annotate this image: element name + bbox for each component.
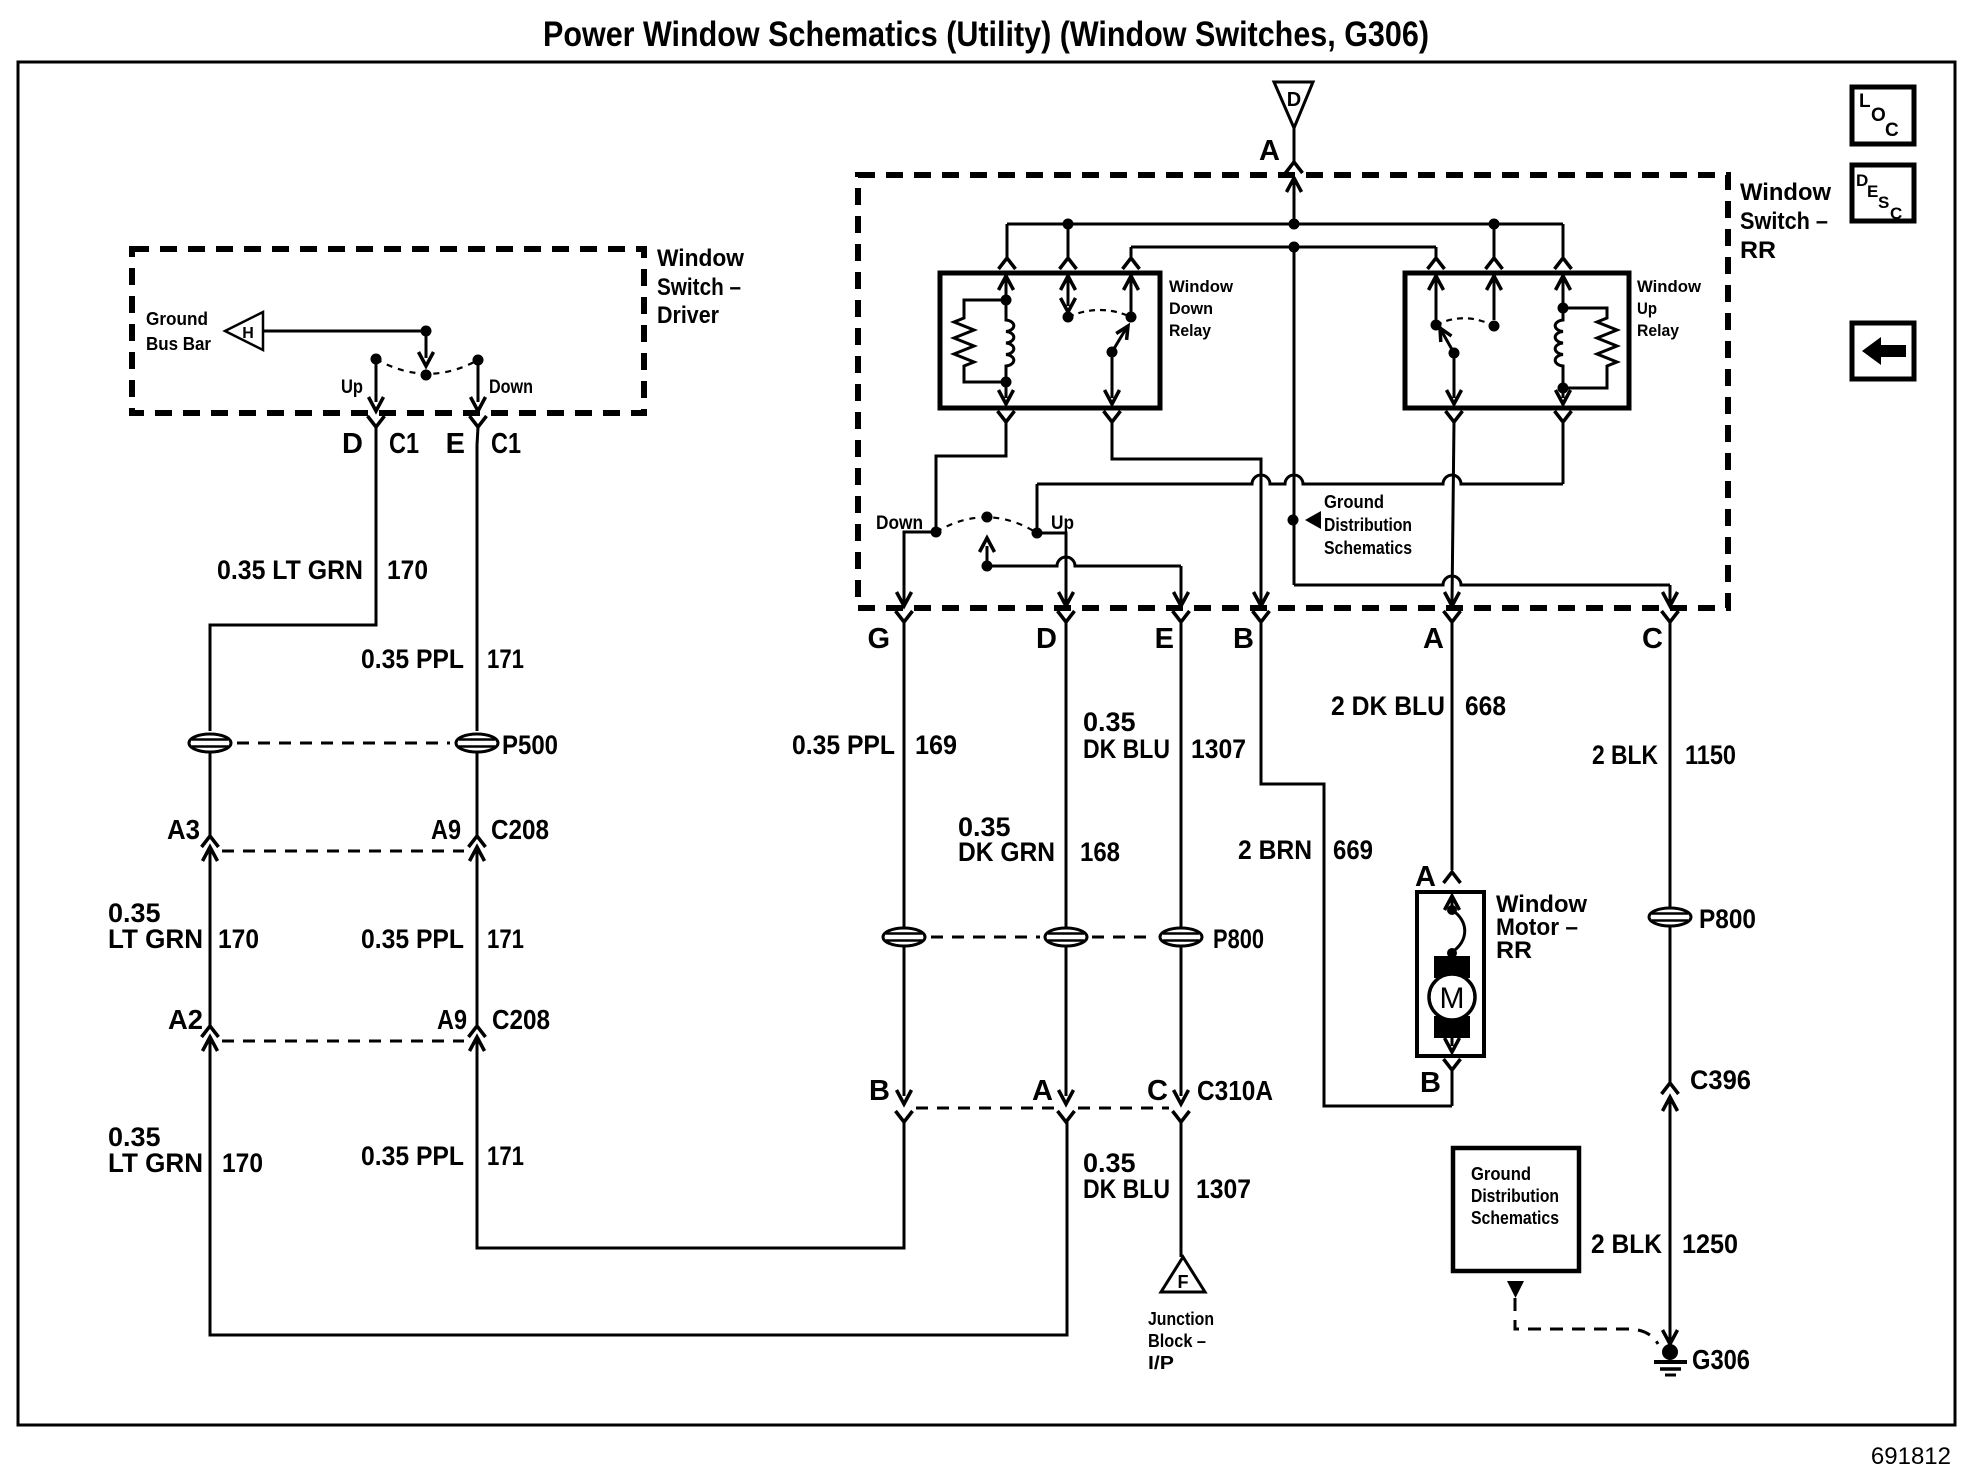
connector P800 bullet on DK GRN wire: [1045, 928, 1087, 946]
motor brush curve: [1447, 905, 1465, 958]
svg-text:0.35 PPL: 0.35 PPL: [361, 924, 464, 954]
down-relay dashed arc: [1068, 310, 1131, 317]
svg-text:B: B: [869, 1075, 890, 1107]
wire: ground tap to RR pin C (hump over A leg): [1294, 576, 1670, 602]
svg-text:0.35 LT GRN: 0.35 LT GRN: [217, 555, 363, 585]
svg-text:Distribution: Distribution: [1471, 1186, 1559, 1206]
svg-text:Window: Window: [1637, 277, 1702, 296]
svg-text:A: A: [1259, 135, 1280, 167]
Window Up Relay box: [1405, 273, 1629, 408]
svg-text:171: 171: [487, 924, 524, 954]
wire: driver E down to P500: [476, 445, 479, 731]
Window Switch - Driver dashed box: [132, 249, 644, 413]
svg-text:A9: A9: [437, 1004, 467, 1035]
svg-text:2 BLK: 2 BLK: [1592, 740, 1658, 770]
down-relay coil branch (pin1): [999, 276, 1014, 404]
svg-text:Up: Up: [341, 377, 363, 398]
wire: bus1 to up-relay pin 2: [1486, 224, 1503, 269]
RR switch wiper arrow: [980, 538, 995, 572]
RR pin D connector: [1058, 592, 1075, 640]
svg-text:Window: Window: [657, 245, 744, 272]
wire: bus2 to down-relay pin 3: [1123, 247, 1140, 269]
RR pin E connector: [1173, 592, 1190, 640]
down-relay resistor (parallel): [954, 300, 1006, 382]
label: A9 / C208 row1: [431, 814, 549, 845]
connector C208 row 1 (A3/A9): [202, 836, 486, 861]
wire: Down contact to RR pin G: [904, 532, 936, 602]
svg-text:171: 171: [487, 1141, 524, 1171]
wire: BLK from P800 to C396: [1669, 926, 1672, 1083]
wire: A pin down to motor pin A: [1451, 640, 1454, 870]
svg-text:170: 170: [218, 924, 259, 954]
wire: DK BLU from P800 to C310A: [1180, 945, 1183, 1096]
label: 0.35 LT GRN 170 (second): [108, 898, 259, 954]
svg-text:Window: Window: [1740, 179, 1831, 206]
connector fork at driver pin D: [368, 416, 385, 445]
svg-text:C: C: [1642, 623, 1663, 655]
motor M symbol: [1429, 953, 1475, 1052]
Window Switch - RR dashed box: [858, 175, 1728, 608]
connector fork at driver pin E: [470, 416, 487, 445]
wire: up-relay pin4 down to RR pin A: [1452, 422, 1454, 602]
svg-text:170: 170: [222, 1148, 263, 1178]
svg-text:P500: P500: [502, 730, 558, 760]
svg-text:S: S: [1878, 193, 1889, 212]
label: Ground Distribution Schematics (RR): [1324, 492, 1412, 558]
svg-text:691812: 691812: [1871, 1443, 1951, 1470]
wire: bus1 to up-relay pin 3: [1555, 224, 1572, 269]
junction dots on bus 1: [1063, 219, 1500, 230]
connector P800 bullet on DK BLU wire: [1160, 928, 1202, 946]
dashed link: ground distribution box to G306: [1515, 1298, 1658, 1344]
svg-text:C: C: [1890, 204, 1902, 223]
label: 2 BLK 1250: [1591, 1229, 1738, 1259]
svg-text:Distribution: Distribution: [1324, 515, 1412, 535]
wire: LT GRN between C208 rows: [209, 847, 212, 1026]
svg-text:LT GRN: LT GRN: [108, 1148, 203, 1178]
svg-text:Up: Up: [1637, 299, 1657, 318]
svg-text:D: D: [1287, 89, 1301, 111]
svg-text:Switch –: Switch –: [1740, 208, 1828, 235]
svg-text:DK BLU: DK BLU: [1083, 734, 1170, 764]
wire: down-relay pin4 to Down contact: [936, 422, 1006, 532]
dashed links P800: [931, 936, 1155, 939]
up-relay resistor (parallel): [1563, 308, 1617, 388]
svg-text:Schematics: Schematics: [1471, 1208, 1559, 1228]
label: C / C310A: [1147, 1075, 1273, 1107]
wire: B pin down, jog right, to motor pin B: [1261, 640, 1452, 1106]
svg-text:1150: 1150: [1685, 740, 1736, 770]
svg-text:C1: C1: [389, 428, 419, 460]
driver switch contact Down: [473, 355, 484, 366]
wire: LT GRN from P500 to C208: [209, 753, 212, 836]
label: Window Switch - Driver: [657, 245, 744, 329]
label: A9 / C208 row2: [437, 1004, 550, 1035]
wire: LT GRN down and right to RR pin D leg: [210, 1037, 1067, 1335]
label: pin E / C1: [446, 428, 521, 460]
connector P800 bullet on BLK wire: [1649, 908, 1691, 926]
wire: Up contact to RR pin D leg: [1037, 533, 1066, 602]
svg-text:D: D: [342, 428, 363, 460]
connector C310A row: [896, 1090, 1190, 1122]
svg-text:1307: 1307: [1196, 1174, 1251, 1204]
down-relay NO contact (pin3): [1124, 276, 1139, 323]
label: 2 BLK 1150: [1592, 740, 1736, 770]
label: 0.35 PPL 169: [792, 730, 957, 760]
svg-text:Bus Bar: Bus Bar: [146, 334, 211, 354]
junction dot bus2 x=1294: [1289, 242, 1300, 253]
svg-text:M: M: [1440, 982, 1465, 1015]
wire: PPL from P500 to C208: [476, 753, 479, 836]
svg-text:Driver: Driver: [657, 302, 719, 329]
wire: Up contact riser to up-relay pin 5 (humps): [1037, 422, 1563, 533]
svg-text:A: A: [1423, 623, 1444, 655]
svg-text:H: H: [242, 325, 254, 342]
up-relay coil branch (pin3): [1555, 276, 1570, 404]
svg-text:B: B: [1420, 1067, 1441, 1099]
label: pin D / C1: [342, 428, 419, 460]
Window Motor - RR box: [1417, 892, 1484, 1056]
svg-text:Switch –: Switch –: [657, 274, 741, 301]
connector P500 bullet on LT GRN wire: [189, 734, 231, 752]
LOC button: [1852, 87, 1914, 144]
svg-text:Block –: Block –: [1148, 1331, 1206, 1351]
svg-text:RR: RR: [1496, 937, 1532, 964]
RR switch contact Up: [1032, 528, 1043, 539]
svg-text:Relay: Relay: [1169, 321, 1211, 340]
Window Down Relay box: [940, 273, 1160, 408]
pointer triangle below ground distribution box: [1507, 1281, 1524, 1298]
RR pin G connector: [896, 592, 913, 640]
wire: Up contact to pin D: [369, 359, 384, 411]
label: 0.35 PPL 171 (third): [361, 1141, 524, 1171]
svg-text:E: E: [1155, 623, 1174, 655]
wire: C pin down to P800: [1669, 640, 1672, 908]
svg-text:169: 169: [915, 730, 957, 760]
RR switch contact Down: [931, 527, 942, 538]
svg-text:2 BRN: 2 BRN: [1238, 835, 1312, 865]
wire: DK BLU down to junction block triangle: [1180, 1122, 1183, 1257]
driver switch dashed arc: [376, 359, 478, 374]
motor pin B connector: [1444, 1059, 1461, 1106]
svg-text:Relay: Relay: [1637, 321, 1679, 340]
svg-text:Junction: Junction: [1148, 1309, 1214, 1329]
up-relay bottom pin forks: [1446, 411, 1572, 422]
RR switch dashed arc: [936, 517, 1037, 533]
up-relay movable arm: [1440, 328, 1462, 404]
svg-text:668: 668: [1465, 691, 1506, 721]
svg-text:F: F: [1178, 1272, 1189, 1292]
connector P800 bullet on PPL 169 wire: [883, 928, 925, 946]
svg-text:DK GRN: DK GRN: [958, 837, 1055, 867]
svg-text:I/P: I/P: [1148, 1353, 1174, 1373]
svg-text:171: 171: [487, 644, 524, 674]
wire: G pin down to P800: [903, 640, 906, 929]
svg-text:Window: Window: [1169, 277, 1234, 296]
svg-text:L: L: [1859, 91, 1871, 112]
motor pin A connector: [1444, 872, 1461, 910]
svg-text:Ground: Ground: [1471, 1164, 1531, 1184]
up-relay NO contact (pin1): [1429, 276, 1444, 331]
up-relay dashed arc: [1436, 318, 1494, 326]
label: 0.35 DK GRN 168: [958, 812, 1120, 867]
connector C396: [1662, 1083, 1679, 1111]
svg-text:Down: Down: [1169, 299, 1213, 318]
wire: bus1 to down-relay pin 1: [999, 224, 1016, 269]
svg-text:P800: P800: [1699, 904, 1756, 934]
ground bus bar reference H: [146, 309, 263, 354]
RR pin C connector: [1662, 592, 1679, 640]
wire: triangle D feed into RR box (node A): [1286, 128, 1303, 224]
wire: down-relay pin5 to RR pin B leg: [1112, 422, 1261, 602]
svg-text:669: 669: [1333, 835, 1373, 865]
junction: driver switch common: [421, 326, 432, 337]
label: Window Up Relay: [1637, 277, 1702, 340]
connector P500 bullet on PPL wire: [456, 734, 498, 752]
label: 2 DK BLU 668: [1331, 691, 1506, 721]
label: 2 BRN 669: [1238, 835, 1373, 865]
wire: D pin down to P800: [1065, 640, 1068, 929]
svg-text:A9: A9: [431, 814, 461, 845]
svg-text:0.35 PPL: 0.35 PPL: [361, 644, 464, 674]
DESC button: [1852, 165, 1914, 223]
svg-text:Down: Down: [489, 377, 533, 398]
label: Window Motor - RR: [1496, 891, 1587, 964]
svg-text:0.35 PPL: 0.35 PPL: [361, 1141, 464, 1171]
wire: bus2 to up-relay pin 1: [1428, 247, 1445, 269]
wire: PPL between C208 rows: [476, 847, 479, 1026]
bus wire 1 (B+ rail y=224): [1007, 223, 1563, 226]
label: Ground Distribution Schematics (box): [1471, 1164, 1559, 1228]
svg-text:C396: C396: [1690, 1065, 1751, 1095]
svg-text:D: D: [1036, 623, 1057, 655]
label: 0.35 PPL 171: [361, 644, 524, 674]
svg-text:Up: Up: [1051, 513, 1074, 534]
svg-text:2 BLK: 2 BLK: [1591, 1229, 1662, 1259]
label: 0.35 PPL 171 (second): [361, 924, 524, 954]
ground distribution tap wire: [1288, 247, 1322, 585]
svg-text:A: A: [1415, 861, 1436, 893]
svg-text:C: C: [1147, 1075, 1168, 1107]
driver switch wiper (arrow down to arc): [419, 331, 434, 381]
wire: PPL down and right to RR pin B leg: [477, 1037, 904, 1248]
off-page triangle F (junction block): [1161, 1257, 1205, 1292]
wire: BLK from C396 to G306: [1663, 1097, 1678, 1344]
svg-text:B: B: [1233, 623, 1254, 655]
svg-text:170: 170: [387, 555, 428, 585]
svg-text:Ground: Ground: [1324, 492, 1384, 512]
svg-text:P800: P800: [1213, 924, 1264, 954]
svg-text:G306: G306: [1692, 1344, 1750, 1375]
off-page triangle D: [1274, 82, 1313, 128]
wire: E pin down to P800: [1180, 640, 1183, 929]
svg-text:G: G: [867, 623, 890, 655]
wire: H triangle to driver switch common: [263, 330, 426, 333]
wire: Down contact to pin E: [471, 360, 486, 411]
down-relay switch common (pin2): [1061, 276, 1076, 323]
svg-text:C208: C208: [491, 814, 549, 845]
svg-text:DK BLU: DK BLU: [1083, 1174, 1170, 1204]
svg-text:2 DK BLU: 2 DK BLU: [1331, 691, 1445, 721]
label: Window Down Relay: [1169, 277, 1234, 340]
up-relay switch common (pin2): [1487, 276, 1502, 332]
svg-text:Schematics: Schematics: [1324, 538, 1412, 558]
wire: RR wiper to pin E (hump over D leg): [987, 557, 1181, 602]
down-relay bottom pin forks: [998, 411, 1121, 422]
svg-text:E: E: [1867, 182, 1878, 201]
svg-text:1250: 1250: [1682, 1229, 1738, 1259]
svg-text:C208: C208: [492, 1004, 550, 1035]
svg-text:A: A: [1032, 1075, 1053, 1107]
driver switch contact Up: [371, 354, 382, 365]
svg-text:168: 168: [1080, 837, 1120, 867]
svg-text:E: E: [446, 428, 465, 460]
bus wire 2 (rail y=247): [1131, 246, 1436, 249]
ground G306 symbol: [1654, 1344, 1687, 1375]
label: 0.35 DK BLU 1307 (lower): [1083, 1148, 1251, 1204]
svg-text:1307: 1307: [1191, 734, 1246, 764]
svg-text:C310A: C310A: [1197, 1075, 1273, 1106]
label: Window Switch - RR: [1740, 179, 1831, 264]
svg-text:Power Window Schematics (Utili: Power Window Schematics (Utility) (Windo…: [543, 15, 1429, 54]
svg-text:Ground: Ground: [146, 309, 208, 329]
label: 0.35 DK BLU 1307 (upper): [1083, 707, 1246, 764]
back-arrow button: [1852, 323, 1914, 379]
svg-text:C1: C1: [491, 428, 521, 460]
down-relay movable arm: [1105, 326, 1129, 404]
label: 0.35 LT GRN 170: [217, 555, 428, 585]
svg-text:RR: RR: [1740, 237, 1776, 264]
wire: driver D down and left to x=210: [210, 445, 376, 731]
connector C208 row 2 (A2/A9): [202, 1026, 486, 1051]
dashed link P500: [237, 742, 450, 745]
Ground Distribution Schematics box (bottom): [1453, 1148, 1579, 1271]
RR pin B connector: [1253, 592, 1270, 640]
svg-text:0.35: 0.35: [1083, 707, 1136, 737]
wire: PPL 169 from P800 to C310A: [903, 945, 906, 1096]
svg-text:A2: A2: [168, 1004, 203, 1035]
svg-text:A3: A3: [167, 814, 200, 845]
svg-text:C: C: [1885, 120, 1899, 141]
label: Junction Block - I/P: [1148, 1309, 1214, 1373]
svg-text:LT GRN: LT GRN: [108, 924, 203, 954]
svg-text:O: O: [1871, 105, 1886, 126]
wire: DK GRN from P800 to C310A: [1065, 945, 1068, 1096]
RR pin A connector: [1444, 592, 1461, 640]
label: 0.35 LT GRN 170 (third): [108, 1122, 263, 1178]
RR switch apex junction: [982, 512, 993, 523]
wire: bus1 to down-relay pin 2: [1060, 224, 1077, 269]
svg-text:0.35 PPL: 0.35 PPL: [792, 730, 895, 760]
